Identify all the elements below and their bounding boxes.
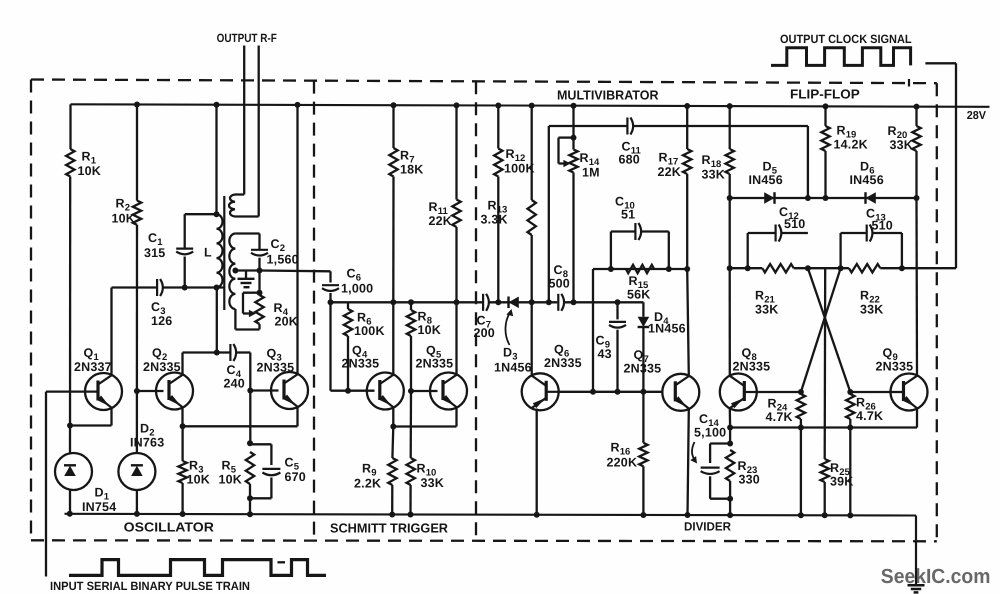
capacitor C3 126 [157,279,163,296]
waveform tick [278,561,286,563]
value D3 1N456 [494,361,532,375]
svg-text:33K: 33K [755,303,779,317]
value C4 240 [224,377,245,391]
label Q2 [152,346,167,363]
label R10 [417,462,437,479]
junction R15 right [666,266,672,272]
resistor R11 [452,200,460,228]
wire C10 bracket [611,232,669,270]
label R11 [429,200,449,217]
wire C14 branch [710,444,730,464]
resistor R4 20K [255,295,263,324]
junction Q1 emitter node [67,423,73,429]
wire R4 wiper [243,293,260,314]
svg-text:10K: 10K [187,473,211,487]
svg-text:100K: 100K [354,324,385,338]
junction C13 left node [838,265,844,271]
ground rail [65,514,917,516]
label R16 [611,441,631,458]
label R25 [830,461,851,478]
svg-text:18K: 18K [400,163,424,177]
value R3 10K [187,473,211,487]
wire flipflop emitter line [730,426,917,428]
wire schmitt node line a [331,301,483,303]
junction on 28V rail [571,103,577,109]
junction R13 node [529,299,535,305]
junction Q2 emitter node [180,423,186,429]
wire C2 bottom [258,258,260,271]
junction R11 node [454,299,460,305]
wire C1 top [185,214,217,248]
value C3 126 [151,314,172,328]
svg-text:20K: 20K [275,314,299,328]
transistor Q7 2N335 [662,374,699,411]
svg-text:670: 670 [285,470,306,484]
svg-text:510: 510 [784,217,805,231]
resistor R24 [797,394,805,419]
capacitor C9 43 [609,322,626,328]
diode D3 1N456 [509,297,519,309]
junction R5 C5 bottom [247,495,253,501]
junction C4 node [214,350,220,356]
svg-text:220K: 220K [607,456,638,470]
value R14 1M [582,166,600,180]
label R13 [488,199,508,216]
label R23 [738,459,758,476]
junction C10 tap [590,389,596,395]
wire Q7 collector [687,269,689,376]
junction D5 line C11 node [805,195,811,201]
wire C5 branch bottom [250,478,271,499]
junction R8 top node [408,299,414,305]
resistor R2 [133,201,141,225]
resistor R18 [726,149,734,174]
enclosure dashed border left [30,80,32,541]
value R13 3.3K [481,213,508,227]
value Q2 2N335 [143,360,181,374]
label L [204,246,212,260]
transistor Q2 2N335 [156,373,193,410]
output R-F winding [229,195,235,217]
value R15 56K [627,288,651,302]
label Q3 [267,347,282,364]
svg-text:315: 315 [144,246,165,260]
svg-text:IN456: IN456 [749,173,783,187]
value R20 33K [890,138,914,152]
wire Q6 base feed [531,302,533,374]
value C9 43 [598,347,612,361]
svg-text:4.7K: 4.7K [766,410,793,424]
value Q4 2N335 [342,357,380,371]
wire C10/R15 riser [592,269,594,392]
label Q1 [84,346,100,363]
wire Q8 collector [757,391,801,393]
label C7 [477,314,492,331]
wire D4 to base line [642,327,644,392]
wire RF winding top [235,193,244,195]
capacitor C6 1000 [322,285,339,291]
value R19 14.2K [834,138,868,152]
junction on ground rail [408,512,414,518]
section label DIVIDER [684,520,731,534]
wire D4 branch corner [642,302,644,316]
label D2 [140,422,155,439]
capacitor C13 510 [867,225,873,242]
output clock waveform [771,48,911,66]
wire C11 branch riser [549,126,627,302]
wire clock output line [925,63,956,268]
value D5 1N456 [749,173,783,187]
svg-text:500: 500 [549,277,570,291]
junction R14 wiper tap [571,135,577,141]
value R9 2.2K [354,477,381,491]
junction R17 column node [684,266,690,272]
wire R19 column [824,151,826,198]
svg-text:22K: 22K [658,165,682,179]
wire C14 bottom [710,476,730,498]
wire R13 column top [531,106,533,200]
transistor Q8 2N335 [720,374,757,411]
wire R18 column [729,174,731,198]
label R26 [856,396,876,413]
wire RF winding bottom [235,215,259,217]
capacitor C11 680 [627,118,633,135]
wire R16 column [642,392,644,443]
transistor Q1 2N337 [85,373,122,410]
label Q9 [883,346,898,363]
label C14 [699,412,720,429]
junction on 28V rail [454,102,460,108]
junction on ground rail [822,512,828,518]
label C5 [285,456,300,473]
value D6 1N456 [850,173,884,187]
wire R14 column [572,173,574,303]
wire C13 bracket [841,233,902,268]
svg-text:FLIP-FLOP: FLIP-FLOP [790,87,860,102]
svg-text:10K: 10K [78,164,102,178]
junction R4 top [257,290,263,296]
wire Q3 base [250,389,278,391]
resistor R20 [912,126,920,151]
value C7 200 [474,326,495,340]
wire tap to C2 node [235,269,259,271]
svg-text:10K: 10K [219,473,243,487]
svg-text:DIVIDER: DIVIDER [684,520,731,534]
wire R3 to ground rail [181,483,183,514]
wire C11 line to flipflop [633,126,808,198]
svg-text:56K: 56K [627,288,651,302]
ground symbol transformer [238,279,255,287]
wire C6 to Q4 base [331,293,375,391]
junction R24 top [798,389,804,395]
svg-text:2N335: 2N335 [733,360,771,374]
resistor R8 [407,310,415,336]
wire Q9 emitter [916,408,918,427]
label R3 [189,459,204,476]
label R22 [860,289,880,306]
wire C9 leads [616,302,618,392]
capacitor C2 1560 [251,250,268,256]
label D3 [503,346,518,363]
wire C10/R15 line [593,268,687,270]
value D1 IN754 [82,500,116,514]
value C2 1560 [267,253,299,267]
wire R14 column top [572,106,574,150]
value R8 10K [418,323,442,337]
svg-text:2N335: 2N335 [624,362,662,376]
resistor R21 horizontal [762,264,793,272]
junction flipflop line left [727,265,733,271]
svg-text:3.3K: 3.3K [481,213,508,227]
resistor R1 [66,149,74,177]
junction on ground rail [247,511,253,517]
svg-text:INPUT SERIAL BINARY PULSE TRAI: INPUT SERIAL BINARY PULSE TRAIN [50,579,250,593]
svg-text:100K: 100K [504,162,535,176]
svg-text:1M: 1M [582,166,600,180]
label R4 [274,301,289,318]
svg-text:L: L [204,246,212,260]
svg-text:1N456: 1N456 [494,361,532,375]
wire R12 column top [497,106,499,149]
svg-text:22K: 22K [429,214,453,228]
svg-text:33K: 33K [890,138,914,152]
svg-text:2N337: 2N337 [74,360,112,374]
capacitor C7 200 [483,294,489,311]
value R5 10K [219,473,243,487]
label R21 [755,289,776,306]
junction R26 emitter line [847,425,853,431]
value C14 5100 [694,426,726,440]
label C11 [622,140,642,157]
wire R5 to ground rail [249,484,251,514]
svg-text:330: 330 [739,473,760,487]
svg-text:33K: 33K [860,303,884,317]
value R24 4.7K [766,410,793,424]
label 28V [967,110,987,122]
wire transformer primary feed [215,105,217,215]
junction Q8 emitter node [727,425,733,431]
diode D1 1N754 [55,453,92,490]
svg-text:10K: 10K [418,323,442,337]
value Q5 2N335 [416,357,454,371]
value R16 220K [607,456,638,470]
svg-text:2N335: 2N335 [257,361,295,375]
transistor Q4 2N335 [367,373,404,410]
label Q6 [554,343,569,360]
label R8 [418,310,433,327]
junction on 28V rail [391,102,397,108]
inductor L primary winding [217,214,223,287]
border tick mark [908,79,910,87]
junction on 28V rail [684,103,690,109]
wire R20 column top [915,107,917,126]
wire Q1 collector [110,288,112,375]
wire Q6 collector line [559,391,664,393]
resistor R10 [407,458,415,485]
resistor R26 [846,394,854,419]
wire D2 to ground rail [136,490,138,514]
section divider schmitt/multivibrator [475,81,477,541]
wire Q1 emitter [110,408,112,425]
value C12 510 [784,217,805,231]
label R9 [362,462,377,479]
C14 pointer arrow [690,442,697,464]
wire Q9 base [850,391,903,393]
value R2 10K [112,212,136,226]
label Q8 [742,346,757,363]
wire C5 branch top [250,444,271,465]
resistor R3 [178,461,186,483]
resistor R6 [344,309,352,336]
wire R20 column [915,151,917,198]
svg-text:4.7K: 4.7K [856,409,883,423]
wire Q5 emitter [455,408,457,427]
label R1 [82,150,97,167]
junction on ground rail [389,512,395,518]
svg-text:510: 510 [872,219,893,233]
junction on 28V rail [914,104,920,110]
junction R26 top [847,389,853,395]
value D2 IN763 [130,436,164,450]
junction on ground rail [134,511,140,517]
wire C4 node to cap [217,351,230,353]
value R6 100K [354,324,385,338]
junction R23 C14 top [727,441,733,447]
svg-text:OUTPUT R-F: OUTPUT R-F [217,31,277,45]
value R22 33K [860,303,884,317]
wire R20 to Q9 collector [915,198,918,376]
value C8 500 [549,277,570,291]
wire R26 bottom [849,419,851,428]
svg-text:OSCILLATOR: OSCILLATOR [124,520,215,535]
value C11 680 [619,153,640,167]
wire R10 to ground rail [409,485,411,515]
ground symbol [908,585,925,592]
value C5 670 [285,470,306,484]
value Q9 2N335 [876,360,914,374]
value C10 51 [621,208,635,222]
label C10 [615,195,635,212]
wire R4 bottom [235,309,259,330]
svg-text:2N335: 2N335 [143,360,181,374]
svg-text:51: 51 [621,208,635,222]
wire R1 column [69,177,71,454]
wire C12 bracket [748,233,808,268]
wire emitter line Q2-Q3 [183,425,298,427]
label C6 [347,267,362,284]
capacitor C12 510 [776,225,782,242]
resistor R13 [528,200,536,235]
wire R26 to ground rail [849,428,851,516]
value R7 18K [400,163,424,177]
junction R12 node [495,299,501,305]
junction on 28V rail [529,103,535,109]
label D4 [654,310,669,327]
junction C6 node tap [328,299,334,305]
wire R13 column [531,235,533,302]
svg-text:39K: 39K [830,475,854,489]
wire R10 column [410,391,413,458]
resistor R17 [683,149,691,174]
junction C11 branch node [546,299,552,305]
wire R8 to Q5 base [410,336,412,391]
wire oscillator output line [260,269,331,272]
junction on 28V rail [134,102,140,108]
wire Q6 emitter [536,409,538,516]
wire R12 column [497,177,499,303]
svg-text:14.2K: 14.2K [834,138,868,152]
resistor R12 [494,149,502,177]
svg-text:SeekIC.com: SeekIC.com [881,565,991,588]
value D4 1N456 [648,322,686,336]
R4 wiper arrow [249,310,256,318]
secondary winding [229,234,235,310]
D3 pointer arrow [505,309,513,345]
wire C4 to Q3 base [236,353,250,391]
junction D6 line R20 node [914,195,920,201]
junction R15 left [608,266,614,272]
junction R7 node [390,299,396,305]
junction R24 emitter line [798,425,804,431]
wire Q1 emitter to R1 column [70,424,112,426]
wire Q3 base bias column [249,391,251,444]
transistor Q9 2N335 [891,374,928,411]
junction C9 bottom node [615,389,621,395]
svg-text:1,000: 1,000 [341,282,373,296]
watermark SeekIC.com [881,565,991,588]
diode D6 1N456 [866,192,876,204]
wire R14 wiper [559,138,574,164]
label C2 [271,237,286,254]
svg-text:43: 43 [598,347,612,361]
svg-text:1,560: 1,560 [267,253,299,267]
label C13 [866,207,886,224]
enclosure dashed border right [936,83,938,541]
label D5 [763,160,778,177]
junction L top [214,211,220,217]
junction R6 bottom [345,388,351,394]
label R6 [357,311,372,328]
wire Q3 emitter [296,407,298,426]
section divider oscillator/schmitt [313,81,315,541]
wire Q2 collector [183,353,217,375]
wire Q2 emitter [181,408,183,427]
value Q6 2N335 [544,356,582,370]
label C9 [596,334,611,351]
wire flipflop line seg3 [880,267,956,269]
section label OSCILLATOR [124,520,215,535]
value Q3 2N335 [257,361,295,375]
label C4 [227,363,242,380]
svg-text:2N335: 2N335 [342,357,380,371]
label OUTPUT R-F [217,31,277,45]
label R2 [116,197,131,214]
junction R5 C5 top [247,440,253,446]
section label MULTIVIBRATOR [557,88,659,103]
wire input line vertical [45,392,47,577]
junction L bottom [214,285,220,291]
capacitor C14 5100 [701,468,720,474]
junction D5 line left [727,195,733,201]
label Q7 [634,348,649,365]
wire node line c [564,301,643,303]
label R5 [222,459,237,476]
junction on ground rail [727,512,733,518]
cross-coupling wire B [801,268,841,392]
label C3 [151,300,166,317]
value R11 22K [429,214,453,228]
transistor Q6 2N335 [522,373,559,410]
